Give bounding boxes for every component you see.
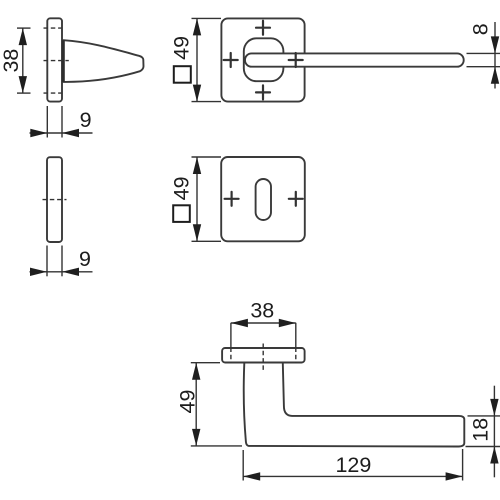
dimension square49 extension line bottom <box>192 101 222 103</box>
screw cross left (key rose) <box>225 192 239 206</box>
dimension square49 arrow up <box>193 18 201 35</box>
centerline middle (dashed) <box>44 60 69 62</box>
dimension 8 arrow up-pointing <box>491 67 499 84</box>
centerline bottom screw hole (dashed) <box>44 92 62 94</box>
dimension 9 arrow right-pointing <box>30 129 47 137</box>
dimension 129 line <box>243 475 462 477</box>
dimension 129 arrow left-pointing <box>243 472 260 480</box>
dimension 18 arrow up-pointing <box>490 447 498 464</box>
svg-text:9: 9 <box>79 247 91 271</box>
svg-text:49: 49 <box>170 176 194 200</box>
rose plate side view (top-left) <box>47 18 62 101</box>
lever bar <box>245 53 464 66</box>
knob (thumb-turn) profile <box>63 40 143 82</box>
dimension 38 (bottom) arrow right-pointing <box>279 319 296 327</box>
dimension 38 (bottom) extension line left <box>230 323 232 348</box>
dimension 49 (bottom) arrow down <box>192 429 200 446</box>
svg-text:38: 38 <box>250 298 274 322</box>
dimension 9 arrow left-pointing <box>62 129 79 137</box>
dimension 9 line <box>30 132 93 134</box>
dimension 9 (middle) extension line left <box>46 246 48 277</box>
svg-text:18: 18 <box>469 418 493 442</box>
dimension 18 arrow down-pointing <box>490 399 498 416</box>
svg-text:9: 9 <box>80 108 92 132</box>
hidden screw hole left (dashed) <box>230 348 232 363</box>
dimension 38 extension tick top <box>17 27 31 29</box>
dimension 9 arrow left-pointing <box>62 268 79 276</box>
dimension 129 extension line right <box>462 449 464 481</box>
dimension 38 extension tick bottom <box>17 92 31 94</box>
screw cross right (on lever) <box>289 53 303 67</box>
dimension 18 extension line top <box>468 415 500 417</box>
square rose front view (top) <box>221 18 304 101</box>
screw cross right (key rose) <box>289 192 303 206</box>
knob base thick edge <box>62 40 65 82</box>
dimension 38 (bottom) line <box>231 322 296 324</box>
dimension 9 line <box>30 271 93 273</box>
dimension 49 (bottom) arrow up <box>192 363 200 380</box>
keyhole slot <box>256 179 271 220</box>
rose side view (bottom) <box>222 348 305 363</box>
dimension 38 (bottom) extension line right <box>295 323 297 348</box>
dimension 38 arrow down <box>19 76 27 93</box>
dimension 8 line <box>494 22 496 89</box>
svg-text:49: 49 <box>169 36 193 60</box>
centerline keyhole (dashed) <box>43 199 67 201</box>
dimension 38 line <box>22 28 24 93</box>
dimension 49 (bottom) extension line bottom <box>191 445 242 447</box>
dimension 129 arrow right-pointing <box>446 472 463 480</box>
svg-text:38: 38 <box>0 49 23 73</box>
dimension square49 line <box>196 18 198 101</box>
svg-text:8: 8 <box>469 23 493 35</box>
dimension 38 (bottom) arrow left-pointing <box>231 319 248 327</box>
svg-text:49: 49 <box>176 390 200 414</box>
dimension square49 (middle) arrow up <box>193 157 201 174</box>
dimension square49 arrow down <box>193 85 201 102</box>
dimension square49 (top) extension line top <box>192 17 222 19</box>
dimension 129 extension line left <box>242 450 244 481</box>
svg-text:129: 129 <box>335 453 371 477</box>
vertical centerline (dashed) <box>262 344 264 373</box>
handle boss <box>244 38 284 81</box>
dimension 9 extension line right <box>61 246 63 277</box>
dimension 18 line <box>493 386 495 478</box>
dimension square49 (middle) arrow down <box>193 224 201 241</box>
square key rose front view <box>221 157 305 241</box>
dimension 49 (bottom) line <box>195 363 197 446</box>
dimension 8 extension line bottom <box>467 66 500 68</box>
dimension 9 arrow right-pointing <box>30 268 47 276</box>
dimension 8 arrow down-pointing <box>491 36 499 53</box>
screw cross top <box>256 21 270 35</box>
dimension 9 extension line right <box>61 106 63 138</box>
hidden screw hole right (dashed) <box>295 348 297 363</box>
screw cross left <box>224 53 238 67</box>
dimension square49 (middle) label square symbol <box>173 205 190 222</box>
dimension 9 (top-left) extension line left <box>46 106 48 138</box>
screw cross bottom <box>256 85 270 99</box>
dimension square49 label square symbol <box>174 66 191 83</box>
dimension 38 arrow up <box>19 28 27 45</box>
dimension square49 (middle) extension line bottom <box>192 240 222 242</box>
dimension 8 (lever thickness) extension line top <box>467 52 500 54</box>
dimension square49 (middle) extension line top <box>192 156 222 158</box>
dimension square49 (middle) line <box>196 157 198 241</box>
dimension 18 extension line bottom <box>466 446 500 448</box>
dimension 49 (bottom) extension line top <box>191 362 220 364</box>
key rose side view <box>47 157 62 242</box>
lever handle outline (neck and grip) <box>244 363 465 446</box>
centerline top screw hole (dashed) <box>44 27 62 29</box>
